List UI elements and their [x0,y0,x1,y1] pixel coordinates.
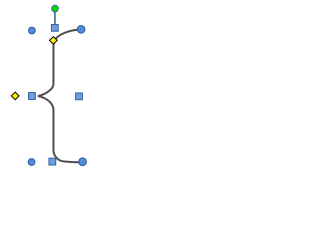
node: top-middle handle (blue square) [51,24,58,31]
wire: curved connector line [38,29,83,162]
node: middle-right handle (blue square) [76,93,83,100]
node: bottom-right endpoint handle (blue circle) [79,158,87,166]
node: bottom-left handle (blue circle) [28,159,35,166]
node: top-right endpoint handle (blue circle) [77,26,85,34]
node: top-left handle (blue circle) [29,27,36,34]
node: top adjustment handle (yellow diamond) [50,37,58,45]
node: left adjustment handle (yellow diamond) [11,92,19,100]
node: middle-left handle (blue square) [29,93,36,100]
node: bottom-middle handle (blue square) [49,158,56,165]
wire: rotation handle stem [54,11,56,25]
node: rotation handle (green circle) [52,5,59,12]
